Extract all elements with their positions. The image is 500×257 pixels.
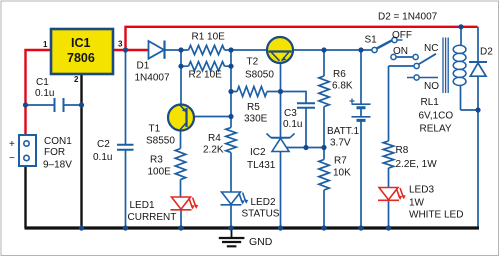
transistor T2 S8050: [267, 37, 293, 63]
relay contacts NC NO: [413, 54, 418, 59]
svg-text:LED1: LED1: [130, 200, 155, 211]
node T1 base: [228, 114, 233, 119]
svg-text:330E: 330E: [244, 114, 268, 125]
IC2 TL431: [271, 137, 290, 139]
node rail R7: [321, 225, 326, 230]
svg-text:LED2: LED2: [251, 197, 276, 208]
resistor R2: [189, 62, 225, 71]
node rail LED1: [178, 225, 183, 230]
svg-text:10K: 10K: [333, 168, 351, 179]
svg-text:−: −: [9, 153, 15, 164]
wire battery column: [360, 50, 362, 228]
node pin3 junction: [123, 47, 128, 52]
node R2 left: [178, 64, 183, 69]
wire IC2 column: [280, 92, 282, 229]
node R1 right: [228, 47, 233, 52]
transistor T1 S8550: [168, 105, 194, 131]
node rail C2: [123, 225, 128, 230]
svg-text:OFF: OFF: [392, 30, 412, 41]
relay RL1 coil: [443, 38, 448, 94]
svg-text:3: 3: [118, 40, 123, 49]
LED1 red: [171, 197, 196, 210]
wire red input rail from CON1 to IC1 pin1: [26, 50, 52, 135]
svg-text:2: 2: [74, 75, 79, 84]
node C1 right: [79, 102, 84, 107]
svg-text:C1: C1: [36, 77, 49, 88]
resistor R3: [175, 149, 185, 180]
wire R6 R7 column: [323, 50, 325, 228]
node R7 top: [321, 145, 326, 150]
diode D1: [149, 41, 165, 59]
svg-text:BATT.1: BATT.1: [327, 126, 359, 137]
node R2 right: [228, 64, 233, 69]
capacitor C1: [26, 104, 82, 106]
wire red top rail to D2: [126, 27, 478, 50]
node D1 cathode R1 left: [178, 47, 183, 52]
svg-text:GND: GND: [249, 236, 273, 248]
svg-text:R6: R6: [333, 69, 346, 80]
resistor R8: [383, 141, 393, 168]
resistor R4: [226, 128, 236, 153]
svg-text:D2 = 1N4007: D2 = 1N4007: [378, 12, 438, 23]
wire S1 ON to NC contact: [396, 56, 413, 58]
svg-text:IC2: IC2: [250, 147, 266, 158]
svg-text:2.2K: 2.2K: [203, 145, 224, 156]
node R6 top: [321, 47, 326, 52]
svg-text:LED3: LED3: [409, 185, 434, 196]
svg-text:RELAY: RELAY: [420, 123, 452, 134]
wire T1 base lead: [187, 116, 232, 118]
node C1 left: [23, 102, 28, 107]
connector CON1: [19, 135, 36, 166]
node rail IC2: [278, 225, 283, 230]
resistor R5: [237, 87, 267, 97]
node rail LED2 gnd: [228, 225, 233, 230]
wire IC2 ref line: [286, 147, 324, 149]
svg-text:9–18V: 9–18V: [43, 160, 72, 171]
svg-text:T1: T1: [149, 123, 161, 134]
svg-text:S1: S1: [365, 35, 378, 46]
wire R1 right to T2 base: [225, 49, 269, 51]
wire relay common to R8 column: [389, 66, 415, 141]
svg-text:D1: D1: [137, 61, 150, 72]
node rail battery: [358, 225, 363, 230]
wire R4 to LED2 to rail: [230, 153, 232, 229]
capacitor C2: [117, 145, 134, 150]
node relay coil top red rail: [458, 24, 463, 29]
resistor R7: [319, 160, 329, 190]
resistor R6: [319, 76, 329, 107]
node rail LED3: [386, 225, 391, 230]
svg-text:FOR: FOR: [44, 147, 65, 158]
svg-text:R7: R7: [334, 156, 347, 167]
wire R2 stubs: [181, 65, 231, 67]
svg-text:6V,1CO: 6V,1CO: [419, 111, 454, 122]
capacitor C3: [297, 103, 315, 108]
svg-text:R5: R5: [247, 102, 260, 113]
svg-text:0.1u: 0.1u: [93, 152, 112, 163]
LED2 blue: [221, 192, 246, 205]
svg-text:0.1u: 0.1u: [35, 88, 54, 99]
svg-text:S8550: S8550: [146, 136, 175, 147]
svg-text:R8: R8: [396, 145, 409, 156]
wire relay coil leads: [461, 27, 479, 110]
svg-text:ON: ON: [393, 46, 408, 57]
wire NO stub: [407, 77, 438, 79]
wire node column D1-R2-T1 emitter: [180, 50, 182, 105]
svg-text:WHITE LED: WHITE LED: [409, 210, 463, 221]
svg-text:CON1: CON1: [44, 136, 72, 147]
svg-text:RL1: RL1: [421, 97, 440, 108]
svg-text:TL431: TL431: [247, 160, 276, 171]
wire T2 collector rail to S1: [292, 49, 372, 51]
node C3 bottom: [303, 145, 308, 150]
wire C2 column: [125, 50, 127, 228]
wire D2 column down to rail: [477, 27, 479, 228]
wire ground rail: [25, 226, 480, 229]
svg-text:T2: T2: [247, 57, 259, 68]
wire R8 to LED3 to rail: [388, 168, 390, 228]
LED3 red: [378, 188, 403, 201]
node D2 anode relay bottom: [475, 107, 480, 112]
svg-text:IC1: IC1: [71, 36, 91, 50]
wire column E R1R2 right / R5 left / T1 base / R4: [230, 50, 232, 128]
svg-text:D2: D2: [480, 47, 493, 58]
svg-text:NC: NC: [424, 43, 438, 54]
svg-text:R1 10E: R1 10E: [192, 32, 226, 43]
svg-text:6.8K: 6.8K: [332, 81, 353, 92]
ground: [231, 230, 233, 238]
svg-text:1N4007: 1N4007: [135, 73, 170, 84]
wire T1 collector to R3 to LED1 to rail: [180, 130, 183, 229]
resistor R1: [189, 45, 225, 54]
svg-text:7806: 7806: [67, 51, 95, 65]
battery BATT.1: [352, 104, 371, 117]
node battery top: [358, 47, 363, 52]
svg-text:C3: C3: [284, 108, 297, 119]
svg-text:STATUS: STATUS: [242, 209, 280, 220]
svg-text:1: 1: [43, 40, 48, 49]
svg-text:1W: 1W: [409, 198, 425, 209]
node rail pin2: [79, 225, 84, 230]
svg-text:100E: 100E: [148, 167, 172, 178]
wire T2 emitter down: [280, 62, 282, 92]
wire R5 stubs: [231, 91, 281, 93]
svg-text:3.7V: 3.7V: [330, 138, 351, 149]
IC1 7806 regulator: [51, 29, 113, 74]
svg-text:R4: R4: [208, 133, 221, 144]
svg-text:R2 10E: R2 10E: [189, 70, 223, 81]
svg-text:NO: NO: [424, 81, 439, 92]
wire IC1 pin2 black: [80, 74, 82, 228]
diode D2: [469, 61, 487, 63]
wire CON1 minus black: [24, 166, 26, 228]
svg-text:S8050: S8050: [245, 70, 274, 81]
svg-text:C2: C2: [97, 139, 110, 150]
svg-text:R3: R3: [150, 155, 163, 166]
switch S1: [372, 47, 377, 52]
wire C3 branch: [281, 92, 307, 148]
wire red IC1 pin3 output to D1 anode: [113, 49, 149, 51]
wire D1 cathode to R1 left node: [165, 49, 189, 51]
svg-text:0.1u: 0.1u: [283, 119, 302, 130]
svg-text:2.2E, 1W: 2.2E, 1W: [396, 159, 438, 170]
node T2 emitter R5 right: [278, 89, 283, 94]
svg-text:CURRENT: CURRENT: [128, 212, 177, 223]
node R5 left: [228, 89, 233, 94]
svg-text:+: +: [9, 139, 15, 150]
